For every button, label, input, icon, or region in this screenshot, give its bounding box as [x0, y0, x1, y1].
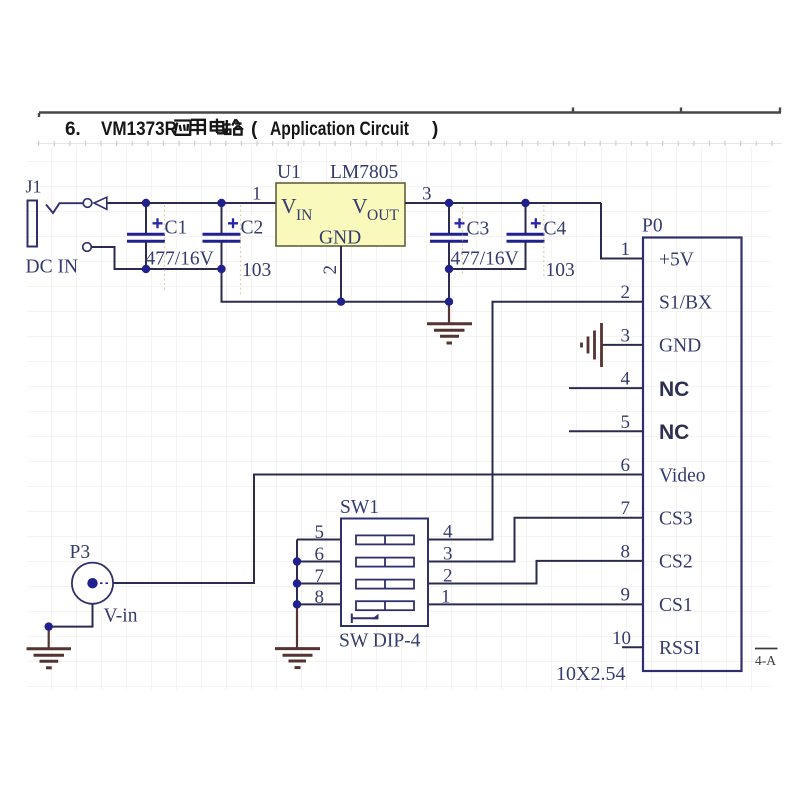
- title: [65, 119, 438, 140]
- SW1 actuator mark: [352, 614, 378, 624]
- svg-text:IN: IN: [296, 207, 312, 224]
- capacitor C4: [507, 203, 575, 281]
- svg-text:NC: NC: [659, 378, 689, 401]
- wire: C3-C4 bottom rail: [449, 242, 526, 270]
- capacitor C1: [127, 203, 214, 270]
- connector P0: [612, 216, 742, 672]
- svg-text:V-in: V-in: [104, 606, 138, 627]
- wire: P3 sleeve: [49, 604, 93, 627]
- node: SW1 common 7: [293, 579, 301, 587]
- svg-text:C3: C3: [467, 219, 490, 240]
- dashed mark C1: [164, 205, 166, 291]
- svg-text:): ): [432, 119, 438, 140]
- ground at P3: [27, 649, 72, 668]
- svg-text:SW DIP-4: SW DIP-4: [339, 631, 421, 652]
- svg-text:2: 2: [621, 282, 631, 303]
- node: VOUT at C3: [445, 199, 453, 207]
- SW1 element 3: [356, 580, 414, 589]
- node: VOUT at C4: [521, 199, 529, 207]
- wire: C2 bottom to GND bus: [222, 269, 450, 302]
- svg-text:S1/BX: S1/BX: [659, 293, 712, 314]
- perforation row: [36, 143, 782, 145]
- svg-text:1: 1: [621, 239, 631, 260]
- svg-text:10: 10: [612, 628, 631, 649]
- svg-text:RSSI: RSSI: [659, 638, 700, 659]
- wire: RSSI stub: [622, 646, 643, 648]
- svg-text:103: 103: [546, 260, 575, 281]
- svg-text:4: 4: [621, 369, 631, 390]
- svg-text:CS1: CS1: [659, 595, 693, 616]
- svg-text:4-A: 4-A: [755, 653, 776, 668]
- CJK 路: [224, 119, 243, 134]
- SW1 element 2: [356, 558, 414, 567]
- svg-text:5: 5: [621, 412, 631, 433]
- switch SW1: [315, 497, 454, 652]
- sheet mark 4-A: [755, 649, 778, 669]
- svg-text:J1: J1: [26, 177, 42, 197]
- ground at SW1: [275, 649, 320, 668]
- CJK 应: [174, 121, 191, 136]
- CJK 用: [190, 120, 205, 135]
- ground at GND bus: [427, 304, 472, 343]
- svg-text:CS3: CS3: [659, 509, 693, 530]
- capacitor C3: [430, 203, 519, 302]
- dashed mark C3: [462, 207, 464, 276]
- svg-text:SW1: SW1: [340, 497, 379, 518]
- wire: SW1 pin6: [297, 561, 341, 563]
- svg-text:GND: GND: [319, 228, 361, 249]
- wire: CS3 from P0 pin7 to SW1 pin3: [428, 518, 643, 562]
- node: P3 ground corner: [45, 622, 53, 630]
- svg-text:C2: C2: [241, 218, 264, 239]
- connector J1: [26, 177, 107, 278]
- svg-text:V: V: [281, 194, 297, 218]
- CJK 电: [211, 119, 224, 134]
- svg-text:9: 9: [621, 585, 631, 606]
- node: rail at C2 bottom: [217, 265, 225, 273]
- svg-text:C4: C4: [544, 219, 567, 240]
- svg-text:Video: Video: [659, 465, 705, 486]
- svg-text:+5V: +5V: [659, 249, 694, 270]
- svg-text:6.: 6.: [65, 119, 80, 140]
- svg-text:3: 3: [443, 544, 453, 565]
- wire: bottom rail C1 to C2: [146, 268, 222, 270]
- node: bus at ground: [445, 298, 453, 306]
- svg-text:P3: P3: [70, 542, 91, 563]
- wire: U1 VOUT to +5V corner: [405, 202, 601, 204]
- svg-text:2: 2: [320, 265, 341, 275]
- wire: S1/BX from P0 pin2 to SW1 pin4: [428, 302, 643, 540]
- wire: +5V drop to P0 pin1: [601, 203, 643, 259]
- wire: jack sleeve down to bottom rail: [92, 247, 147, 269]
- SW1 element 1: [356, 535, 414, 544]
- svg-text:3: 3: [621, 325, 631, 346]
- node: VIN at C1: [142, 199, 150, 207]
- regulator U1 LM7805: [252, 162, 432, 275]
- svg-text:477/16V: 477/16V: [146, 249, 214, 270]
- svg-text:6: 6: [621, 455, 631, 476]
- svg-text:NC: NC: [659, 421, 689, 444]
- svg-text:VM1373R: VM1373R: [101, 119, 177, 140]
- svg-text:U1: U1: [277, 162, 301, 183]
- wire: CS2 from P0 pin8 to SW1 pin2: [428, 561, 643, 584]
- svg-text:GND: GND: [659, 336, 701, 357]
- wire: P0 pin3 to ground: [602, 344, 644, 346]
- node: VIN at C2: [217, 199, 225, 207]
- node: rail at C3 bottom: [445, 265, 453, 273]
- wire: stem to ground: [296, 606, 298, 648]
- node: SW1 common 8: [293, 600, 301, 608]
- svg-text:1: 1: [441, 586, 451, 607]
- node: SW1 common 6: [293, 557, 301, 565]
- wire: SW1 common down: [296, 540, 298, 607]
- svg-text:10X2.54: 10X2.54: [556, 663, 625, 685]
- svg-text:V: V: [352, 194, 368, 218]
- svg-text:DC IN: DC IN: [26, 257, 79, 278]
- wire: P0 pin4 NC stub: [569, 387, 643, 389]
- wire: SW1 pin8: [297, 603, 341, 605]
- svg-text:477/16V: 477/16V: [451, 249, 519, 270]
- dashed mark C4: [543, 205, 545, 276]
- svg-text:(: (: [251, 119, 258, 140]
- wire: jack tip to U1 VIN: [107, 202, 277, 204]
- svg-text:Application Circuit: Application Circuit: [270, 119, 410, 140]
- SW1 element 4: [356, 601, 414, 610]
- dashed mark C2: [240, 205, 242, 296]
- svg-text:LM7805: LM7805: [330, 162, 398, 183]
- node: rail at C1 bottom: [142, 265, 150, 273]
- wire: P0 pin5 NC stub: [569, 430, 643, 432]
- svg-text:OUT: OUT: [367, 207, 399, 224]
- wire: Video net P3 to P0 pin6: [113, 475, 643, 584]
- capacitor C2: [203, 203, 272, 281]
- ground (rotated) at P0 pin3: [582, 323, 602, 367]
- ruler line: [39, 108, 781, 118]
- wire: SW1 pin7: [297, 583, 341, 585]
- wire: stem to ground: [48, 627, 50, 648]
- svg-text:CS2: CS2: [659, 552, 693, 573]
- wire: SW1 pin5: [297, 539, 341, 541]
- connector P3: [70, 542, 138, 627]
- svg-text:8: 8: [621, 541, 631, 562]
- svg-text:4: 4: [443, 522, 453, 543]
- wire: CS1 from P0 pin9 to SW1 pin1: [428, 603, 643, 605]
- wire: U1 GND pin2 to bus: [340, 246, 342, 302]
- node: bus at U1 GND: [337, 298, 345, 306]
- svg-text:3: 3: [422, 184, 432, 205]
- svg-text:2: 2: [443, 566, 453, 587]
- svg-text:103: 103: [242, 260, 271, 281]
- svg-text:P0: P0: [642, 216, 663, 237]
- svg-text:7: 7: [621, 498, 631, 519]
- svg-text:C1: C1: [165, 218, 188, 239]
- svg-text:1: 1: [252, 184, 262, 205]
